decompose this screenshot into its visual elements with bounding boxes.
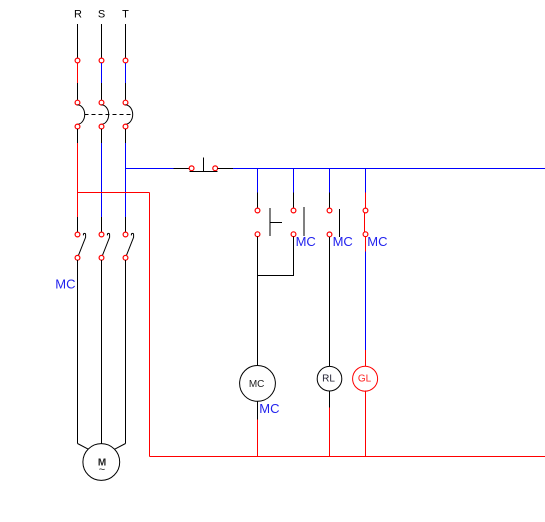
label MC (GL contact) — [367, 234, 387, 249]
wire seal-in to junction — [258, 237, 294, 276]
circuit breaker CB pole S — [99, 100, 109, 129]
wire control hot rail (blue, right of STOP) — [218, 168, 545, 170]
wire S supply to breaker (live, blue) — [101, 63, 103, 100]
wire RL branch drop (blue) — [329, 169, 331, 209]
wire control hot branch from T (blue rail left) — [126, 168, 190, 170]
terminal T supply — [123, 58, 128, 63]
svg-text:MC: MC — [259, 401, 279, 416]
circuit breaker CB pole R — [75, 100, 85, 129]
svg-text:MC: MC — [296, 234, 316, 249]
wire R source lead — [77, 24, 79, 58]
node T — [122, 9, 129, 21]
coil MC — [240, 366, 276, 402]
wire MC aux branch drop (blue) — [293, 169, 295, 209]
contact MC for GL (NC, closed) — [363, 208, 368, 237]
circuit breaker CB pole T — [123, 100, 133, 129]
wire control return branch from R (red) — [78, 193, 150, 457]
wire T MC contact to motor — [115, 260, 126, 449]
contact MC auxiliary for RL (NO) — [327, 208, 340, 237]
svg-text:RL: RL — [322, 374, 335, 385]
wire RL lamp to return rail — [329, 391, 331, 457]
wire coil to return rail — [257, 401, 259, 456]
terminal S supply — [99, 58, 104, 63]
svg-text:MC: MC — [333, 234, 353, 249]
breaker gang link (dashed) — [85, 114, 133, 116]
wire T supply to breaker (live, blue) — [125, 63, 127, 100]
svg-text:T: T — [122, 9, 129, 21]
contactor MC main contact pole T — [123, 232, 134, 260]
wire T source lead — [125, 24, 127, 58]
wire R MC contact to motor — [78, 260, 89, 449]
svg-text:~: ~ — [99, 464, 105, 476]
contact MC auxiliary seal-in (NO) — [291, 207, 304, 236]
label MC (main contacts) — [55, 276, 75, 291]
wire START branch drop (blue) — [257, 169, 259, 209]
wire S MC contact to motor — [101, 260, 103, 443]
lamp GL — [353, 366, 378, 391]
pushbutton START (NO) — [255, 208, 282, 237]
wire S breaker to MC contact (live, blue) — [101, 129, 103, 232]
wire S source lead — [101, 24, 103, 58]
svg-text:S: S — [98, 9, 105, 21]
node R — [74, 9, 82, 21]
svg-text:MC: MC — [367, 234, 387, 249]
wire T breaker to MC contact (live, blue) — [125, 129, 127, 232]
pushbutton STOP (NC) — [189, 157, 217, 171]
lamp RL — [317, 366, 342, 391]
wire RL contact to lamp — [329, 237, 331, 367]
wire GL contact to lamp (red/blue/red) — [365, 237, 367, 367]
svg-text:R: R — [74, 9, 82, 21]
wire GL branch drop (blue then red) — [365, 169, 367, 209]
motor M — [83, 444, 120, 481]
terminal R supply — [75, 58, 80, 63]
node S — [98, 9, 105, 21]
label MC (RL contact) — [333, 234, 353, 249]
wire R supply to breaker (live, red) — [77, 63, 79, 100]
svg-text:MC: MC — [249, 379, 265, 390]
wire START to coil — [257, 237, 259, 366]
label MC (coil) — [259, 401, 279, 416]
contactor MC main contact pole S — [99, 232, 110, 260]
svg-text:MC: MC — [55, 276, 75, 291]
wire control return bottom rail (red) — [150, 456, 545, 458]
wire R breaker to MC contact (live, red) — [77, 129, 79, 232]
wire GL lamp to return rail (red) — [365, 391, 367, 457]
label MC (seal-in contact) — [296, 234, 316, 249]
svg-text:GL: GL — [358, 374, 372, 385]
contactor MC main contact pole R — [75, 232, 86, 260]
